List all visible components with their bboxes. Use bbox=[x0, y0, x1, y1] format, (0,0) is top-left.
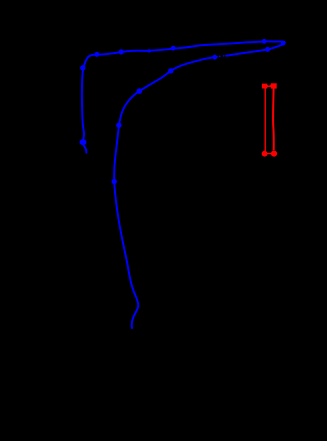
red limit-cycle top connector bbox=[266, 85, 272, 87]
red top-right marker (square with left arrow point) bbox=[269, 83, 276, 88]
red limit-cycle bottom connector bbox=[265, 153, 274, 155]
blue marker P13 bbox=[116, 123, 121, 128]
blue marker P1 (trajectory endpoint blob) bbox=[80, 139, 87, 145]
blue marker P6 bbox=[171, 46, 176, 51]
blue trajectory: continuation through hairpin and return along top, down left side bbox=[82, 41, 285, 152]
blue marker P14 bbox=[112, 179, 117, 184]
blue marker P8 (hairpin tip) bbox=[281, 41, 286, 46]
red limit-cycle right vertical side bbox=[272, 88, 275, 150]
dotted segment dot 1 of blue trajectory bbox=[219, 55, 221, 57]
red bottom-right circle marker bbox=[271, 151, 277, 157]
blue marker P10 bbox=[212, 55, 217, 60]
blue marker P3 bbox=[94, 52, 99, 57]
red bottom-left circle marker bbox=[262, 151, 268, 157]
blue marker P9 bbox=[265, 47, 270, 52]
blue marker P7 bbox=[262, 39, 267, 44]
blue marker P12 bbox=[137, 88, 143, 94]
blue trajectory: ascending branch (bottom hook up to hairpin, first part) bbox=[114, 57, 217, 328]
dotted segment dot 2 of blue trajectory bbox=[223, 55, 225, 57]
blue marker P2 bbox=[80, 65, 85, 70]
blue marker P5 (small) bbox=[148, 49, 151, 52]
blue marker P4 bbox=[119, 49, 124, 54]
red top-left marker (square with right arrow point) bbox=[262, 84, 269, 89]
red limit-cycle left vertical side bbox=[264, 88, 266, 151]
blue marker P11 bbox=[168, 68, 173, 73]
